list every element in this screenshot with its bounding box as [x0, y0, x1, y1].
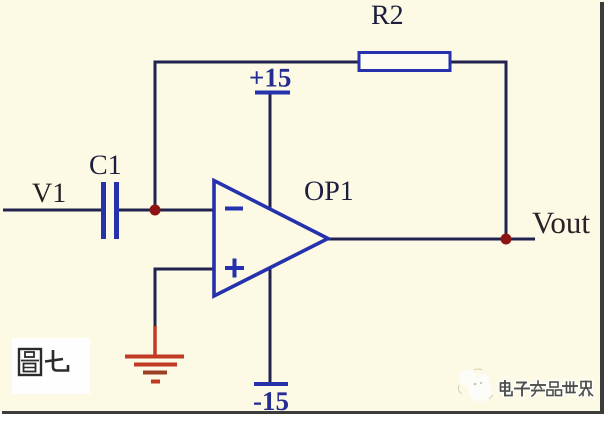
svg-text:+15: +15	[249, 63, 291, 93]
figure caption box	[12, 338, 90, 394]
watermark text	[501, 381, 593, 396]
wire feedback vertical left	[154, 62, 157, 210]
svg-text:R2: R2	[371, 0, 404, 31]
op-amp U1 triangle	[214, 181, 328, 297]
svg-text:V1: V1	[32, 178, 66, 209]
wire R2 to top right corner	[450, 61, 506, 64]
capacitor C1	[101, 182, 119, 239]
wire non-inverting input horizontal	[155, 268, 214, 271]
node A junction dot	[150, 205, 161, 216]
resistor R2	[359, 53, 450, 71]
op-amp inverting input minus symbol	[225, 207, 243, 211]
ground	[125, 326, 184, 382]
+15 supply terminal bar	[255, 91, 290, 95]
wire +15 supply to op-amp	[269, 94, 272, 209]
svg-text:-15: -15	[253, 386, 289, 416]
wire feedback vertical right to node B	[505, 61, 508, 240]
wire non-inverting input to ground	[154, 268, 157, 328]
wire C1 to node A	[119, 209, 155, 212]
wire op-amp to -15 supply	[269, 268, 272, 384]
wire node A to op-amp inverting input	[155, 209, 214, 212]
svg-text:OP1: OP1	[304, 176, 354, 207]
wire op-amp output to Vout	[328, 238, 535, 241]
svg-text:C1: C1	[89, 150, 122, 181]
svg-text:Vout: Vout	[532, 205, 590, 240]
wire feedback top left to R2	[154, 61, 360, 64]
node B output junction dot	[501, 234, 512, 245]
op-amp non-inverting input plus symbol	[225, 259, 244, 278]
wire input V1 to C1	[3, 209, 102, 212]
watermark logo	[458, 369, 493, 402]
watermark text glow	[501, 381, 593, 396]
-15 supply terminal bar	[254, 382, 288, 386]
